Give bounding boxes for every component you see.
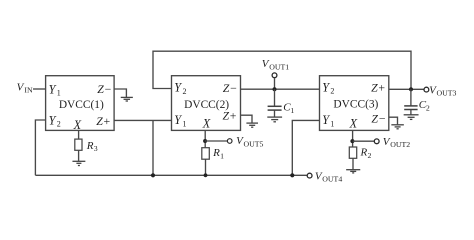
junction VOUT1 node	[273, 87, 277, 91]
DVCC(1) block U1 box	[46, 76, 115, 131]
svg-text:Z−: Z−	[223, 81, 238, 95]
wire R1 to bottom rail	[205, 159, 207, 175]
svg-text:X: X	[349, 117, 358, 131]
wire U3 Z- to ground	[389, 117, 398, 124]
wire C2 to ground	[410, 110, 412, 115]
DVCC(3) block U3 box	[320, 76, 389, 131]
capacitor C1 plates	[268, 106, 282, 110]
ground at U2 Z+	[246, 123, 258, 127]
svg-text:2: 2	[183, 87, 187, 96]
ground below C1	[267, 117, 282, 122]
wire bottom rail VOUT4 net	[35, 174, 307, 176]
svg-text:2: 2	[57, 120, 61, 129]
svg-text:OUT5: OUT5	[244, 139, 264, 148]
wire to VOUT5 terminal	[205, 140, 227, 142]
terminal VOUT1 circle	[272, 73, 277, 78]
svg-text:3: 3	[94, 144, 98, 153]
svg-text:X: X	[73, 118, 82, 132]
wire U1 Z+ to U2 Y1	[114, 119, 171, 121]
ground below R3	[72, 161, 85, 165]
svg-text:X: X	[202, 116, 211, 130]
wire R2 to ground	[352, 158, 354, 169]
wire U1 Y2 to bottom rail	[35, 120, 45, 175]
terminal VOUT3 circle	[424, 87, 429, 92]
terminal VOUT4 circle	[307, 173, 312, 178]
ground below C2	[404, 115, 419, 120]
svg-text:R: R	[360, 147, 368, 159]
wire VOUT1 terminal lead	[274, 78, 276, 90]
svg-text:1: 1	[330, 119, 334, 128]
svg-text:OUT4: OUT4	[322, 175, 342, 184]
svg-text:IN: IN	[24, 85, 33, 94]
wire U3 Z+ to VOUT3 terminal	[389, 88, 424, 90]
svg-text:2: 2	[368, 151, 372, 160]
svg-text:1: 1	[220, 152, 224, 161]
wire U1 Z- to ground	[114, 89, 126, 97]
junction VOUT3 node	[409, 87, 413, 91]
svg-text:2: 2	[426, 104, 430, 113]
terminal VOUT5 circle	[227, 139, 232, 144]
svg-text:R: R	[86, 140, 94, 152]
svg-text:DVCC(1): DVCC(1)	[59, 99, 104, 111]
junction U3 X node	[350, 139, 354, 143]
svg-text:Z−: Z−	[371, 111, 386, 125]
svg-text:OUT3: OUT3	[437, 88, 457, 97]
svg-text:R: R	[212, 147, 220, 159]
terminal VOUT2 circle	[374, 139, 379, 144]
wire branch down to bottom rail VOUT4 net	[152, 120, 154, 175]
wire U3 Y1 to bottom rail	[292, 120, 319, 175]
wire U2 X down	[204, 130, 206, 147]
junction branch on rail	[151, 173, 155, 177]
svg-text:Z+: Z+	[371, 80, 386, 94]
svg-text:1: 1	[290, 106, 294, 115]
wire U3 X down	[352, 130, 354, 147]
svg-text:OUT1: OUT1	[269, 62, 289, 71]
svg-text:1: 1	[57, 89, 61, 98]
capacitor C1 top lead	[274, 89, 276, 106]
capacitor C2 plates	[404, 106, 417, 110]
capacitor C2 top lead	[410, 89, 412, 106]
svg-text:OUT2: OUT2	[390, 140, 410, 149]
svg-text:Z+: Z+	[96, 114, 111, 128]
wire to VOUT2 terminal	[353, 140, 375, 142]
wire feedback U2 Y2 to U3 Z+ top loop	[153, 51, 411, 89]
wire U1 X to R3	[78, 130, 80, 139]
wire VIN to U1 Y1	[33, 88, 46, 90]
resistor R2 body	[349, 147, 356, 158]
wire U2 Z+ to ground	[241, 115, 253, 123]
svg-text:1: 1	[183, 119, 187, 128]
wire C1 to ground	[274, 110, 276, 117]
wire R3 to ground	[78, 150, 80, 161]
svg-text:Z−: Z−	[97, 82, 112, 96]
wire U2 Z- to U3 Y2 VOUT1 net	[241, 88, 320, 90]
ground below R2	[346, 170, 360, 173]
svg-text:DVCC(2): DVCC(2)	[184, 99, 229, 111]
resistor R3 body	[75, 139, 82, 150]
svg-text:2: 2	[330, 87, 334, 96]
DVCC(2) block U2 box	[172, 76, 241, 131]
svg-text:DVCC(3): DVCC(3)	[333, 98, 378, 110]
junction U3 Y1 on rail	[290, 173, 294, 177]
ground at U1 Z-	[121, 97, 133, 101]
ground at U3 Z-	[391, 125, 404, 129]
junction R1 on rail	[204, 173, 208, 177]
resistor R1 body	[202, 148, 210, 160]
junction U2 X node	[203, 139, 207, 143]
